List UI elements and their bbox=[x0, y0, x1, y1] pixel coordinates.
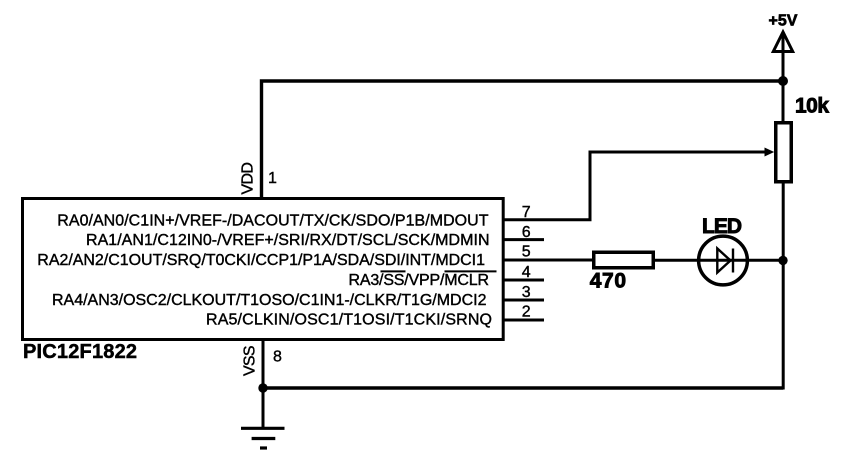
svg-text:5: 5 bbox=[522, 244, 531, 261]
overline MCLR bbox=[445, 270, 497, 272]
svg-text:3: 3 bbox=[522, 284, 531, 301]
+5V arrow triangle bbox=[773, 32, 792, 52]
LED D1 circle bbox=[699, 236, 748, 285]
svg-text:RA1/AN1/C12IN0-/VREF+/SRI/RX/D: RA1/AN1/C12IN0-/VREF+/SRI/RX/DT/SCL/SCK/… bbox=[86, 232, 490, 249]
svg-text:RA5/CLKIN/OSC1/T1OSI/T1CKI/SRN: RA5/CLKIN/OSC1/T1OSI/T1CKI/SRNQ bbox=[206, 312, 492, 329]
svg-text:+5V: +5V bbox=[769, 13, 798, 30]
wiper arrowhead bbox=[765, 148, 775, 157]
svg-text:8: 8 bbox=[273, 349, 282, 366]
wire pin 5 to resistor bbox=[503, 259, 593, 262]
junction dot VDD rail bbox=[778, 76, 788, 86]
svg-text:10k: 10k bbox=[795, 94, 829, 117]
LED cathode bar bbox=[732, 249, 734, 273]
junction dot LED cathode bbox=[778, 256, 787, 265]
wire pin 7 to pot wiper bbox=[503, 152, 766, 220]
overline SS bbox=[381, 270, 406, 272]
wire pot bottom down bbox=[782, 182, 785, 390]
wire resistor to LED junction bbox=[655, 259, 784, 262]
svg-text:LED: LED bbox=[702, 215, 742, 238]
wire stub pin 3 bbox=[503, 299, 544, 302]
LED diode triangle bbox=[717, 249, 730, 273]
resistor R2 470 body bbox=[594, 252, 654, 268]
wire ground rail bottom bbox=[263, 386, 783, 389]
ground symbol bbox=[241, 427, 285, 430]
wire stub pin 2 bbox=[503, 319, 544, 322]
svg-text:1: 1 bbox=[268, 170, 277, 187]
wire +5V stem bbox=[782, 33, 785, 122]
wire VSS pin8 down bbox=[262, 340, 265, 430]
wire stub pin 6 bbox=[503, 238, 544, 241]
svg-text:RA2/AN2/C1OUT/SRQ/T0CKI/CCP1/P: RA2/AN2/C1OUT/SRQ/T0CKI/CCP1/P1A/SDA/SDI… bbox=[37, 252, 485, 269]
wire VDD pin1 up bbox=[262, 81, 784, 200]
svg-text:2: 2 bbox=[522, 304, 531, 321]
wire stub pin 4 bbox=[503, 279, 544, 282]
svg-text:RA4/AN3/OSC2/CLKOUT/T1OSO/C1IN: RA4/AN3/OSC2/CLKOUT/T1OSO/C1IN1-/CLKR/T1… bbox=[52, 292, 487, 309]
svg-text:VSS: VSS bbox=[242, 346, 259, 377]
svg-text:RA3/SS/VPP/MCLR: RA3/SS/VPP/MCLR bbox=[349, 272, 490, 289]
potentiometer R1 10k body bbox=[776, 123, 792, 182]
svg-text:4: 4 bbox=[522, 264, 531, 281]
svg-text:RA0/AN0/C1IN+/VREF-/DACOUT/TX/: RA0/AN0/C1IN+/VREF-/DACOUT/TX/CK/SDO/P1B… bbox=[57, 213, 488, 230]
junction dot VSS rail bbox=[258, 383, 267, 392]
svg-text:470: 470 bbox=[590, 270, 626, 293]
svg-text:PIC12F1822: PIC12F1822 bbox=[23, 341, 137, 363]
svg-text:VDD: VDD bbox=[240, 162, 257, 195]
IC U1 PIC12F1822 body bbox=[23, 199, 504, 340]
